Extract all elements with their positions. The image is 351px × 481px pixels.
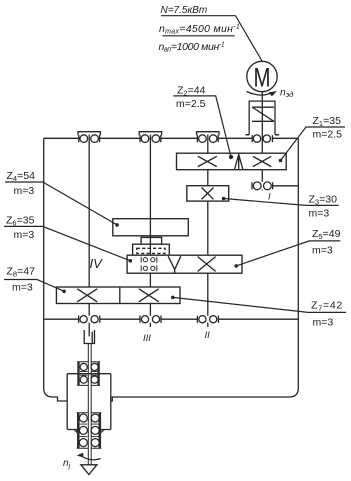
leader Z4 [5, 182, 117, 225]
leader Z8 [4, 280, 64, 292]
coupling wide body [133, 244, 170, 255]
output triangle [81, 465, 97, 475]
svg-text:Z6=35: Z6=35 [6, 215, 35, 228]
gear labels [6, 85, 343, 329]
bearing pair shaft IV top [78, 132, 100, 143]
gear Z3 rect [187, 186, 229, 201]
bearing pair shaft III bottom [140, 316, 161, 323]
upper spindle bearing right bar [97, 362, 99, 386]
svg-text:m=2.5: m=2.5 [176, 98, 206, 110]
housing right wall [111, 138, 298, 401]
belt variator symbol [252, 107, 274, 121]
spindle assembly [63, 330, 111, 475]
gear block rect on shafts III-II (Z5,Z6) [127, 255, 242, 273]
leader dot Z5 [234, 264, 238, 268]
idler bearings inside block [141, 257, 157, 271]
shaft III vertical [149, 135, 151, 327]
gear Z4 rect [113, 219, 189, 236]
gear Z5 cross [198, 257, 216, 272]
gear Z8 cross [77, 289, 97, 302]
svg-text:m=3: m=3 [14, 229, 35, 241]
gear block rect on shafts IV-III (Z8,Z7) [56, 287, 180, 304]
coupling small step [141, 237, 162, 244]
svg-text:IV: IV [90, 256, 104, 271]
quill bottom line [67, 429, 111, 431]
svg-text:m=3: m=3 [312, 245, 333, 257]
leader Z1 [281, 127, 346, 161]
svg-text:Z1=35: Z1=35 [313, 115, 342, 128]
lower spindle bearing balls [79, 414, 99, 447]
leader dot Z7 [171, 296, 175, 300]
svg-text:m=2.5: m=2.5 [313, 129, 343, 141]
bearing line under gear block I [273, 185, 299, 187]
mesh arrow in block I [235, 153, 243, 169]
svg-text:Z4=54: Z4=54 [7, 170, 36, 183]
svg-text:Z3=30: Z3=30 [309, 194, 338, 207]
spindle hollow shaft double line [88, 344, 91, 465]
leader dot Z6 [129, 259, 133, 263]
quill rect [67, 374, 111, 430]
bearing pair shaft II bottom [197, 316, 218, 323]
gear Z2 cross [198, 156, 217, 166]
bearing pair shaft IV bottom [79, 316, 100, 323]
upper spindle bearing races [80, 372, 98, 376]
gear Z7 cross [139, 289, 159, 302]
motor data text [159, 5, 241, 54]
svg-text:I: I [268, 192, 271, 203]
svg-text:Z8=47: Z8=47 [7, 266, 36, 279]
svg-text:Z2=44: Z2=44 [177, 85, 206, 98]
shaft I vertical [261, 92, 263, 191]
spindle rotation arrow [79, 455, 101, 460]
shaft II vertical [207, 135, 209, 327]
leader dot Z1 [279, 159, 283, 163]
svg-text:nэд: nэд [280, 88, 293, 100]
gear block rect on shafts I-II (Z1,Z2) [177, 153, 287, 170]
motor bracket [246, 101, 280, 135]
coupling cup on shaft IV [84, 330, 94, 344]
housing left wall [44, 138, 67, 401]
lower spindle bearing races [80, 424, 99, 436]
gear Z3 cross [202, 188, 214, 200]
rotation arc under motor [247, 92, 272, 96]
shaft III through gear Z4 [149, 219, 151, 236]
upper spindle bearing balls [80, 363, 98, 383]
upper spindle bearing left bar [77, 362, 79, 386]
upper spindle bearing caps [77, 362, 100, 386]
motor assembly [246, 61, 294, 134]
divider in lower block [119, 287, 121, 304]
leader dot Z4 [115, 223, 119, 227]
leader Z2 [173, 96, 231, 157]
svg-text:III: III [143, 333, 151, 344]
leader dot Z2 [229, 155, 233, 159]
leader Z5 [236, 241, 340, 266]
white covers for bearing symbols [78, 134, 273, 325]
motor data underline and leader [161, 16, 262, 61]
svg-text:m=3: m=3 [14, 185, 35, 197]
svg-text:N=7.5кВт: N=7.5кВт [161, 5, 208, 16]
lower spindle bearing right bar [99, 413, 102, 448]
svg-text:m=3: m=3 [313, 317, 334, 329]
underline n_max [163, 35, 235, 37]
lower bearing step notches [74, 430, 105, 433]
lower spindle bearing left bar [77, 413, 80, 448]
rotation arrowhead [269, 91, 277, 96]
bottom bearing row line [44, 318, 299, 320]
lower spindle bearing caps [77, 413, 102, 448]
svg-text:Z7=42: Z7=42 [311, 300, 343, 313]
bearing pair shaft III top [139, 132, 161, 143]
svg-text:m=3: m=3 [309, 208, 330, 220]
shaft III through coupling [149, 236, 151, 255]
shaft roman numerals [90, 192, 272, 345]
motor circle [247, 61, 277, 91]
housing top wall [44, 137, 299, 139]
bearing pair shaft II top [197, 132, 219, 143]
svg-text:M: M [254, 63, 271, 93]
gear Z1 cross [253, 156, 271, 166]
shaft IV vertical [88, 135, 90, 337]
leader dot Z8 [62, 290, 66, 294]
leader Z3 [224, 199, 339, 206]
mesh arrow V in block [168, 256, 181, 273]
bearing pair shaft I under motor bracket [246, 135, 280, 143]
svg-text:Z5=49: Z5=49 [312, 228, 341, 241]
coupling dashed insert [137, 248, 165, 253]
leader dot Z3 [222, 197, 226, 201]
leader Z6 [4, 226, 130, 260]
svg-text:II: II [205, 330, 211, 341]
bearing pair shaft I lower [252, 182, 273, 190]
labels and leaders [4, 16, 346, 313]
leader Z7 [173, 297, 346, 312]
svg-text:m=3: m=3 [12, 282, 33, 294]
